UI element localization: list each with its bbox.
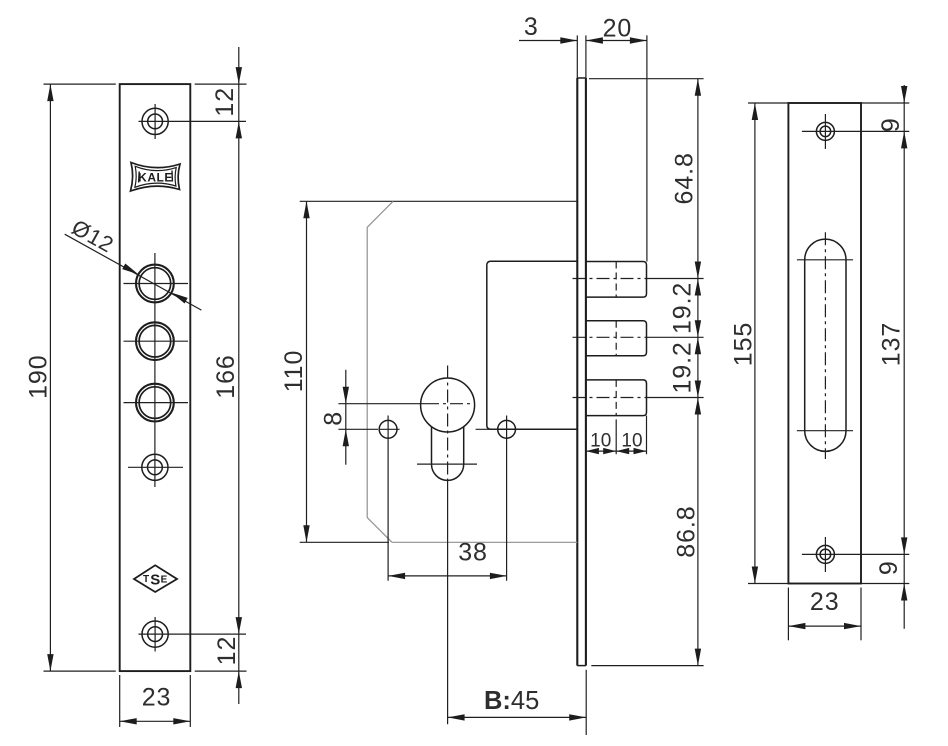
bolt hole 1 horizontal centerline (124, 283, 189, 285)
svg-text:12: 12 (211, 87, 239, 117)
dimension 155 (748, 102, 788, 104)
dimension 3 (519, 40, 577, 42)
slot (stadium) (805, 239, 846, 451)
bottom screw hole crosshair (154, 617, 156, 652)
right screw post circle (498, 420, 516, 438)
dimension 23 (right view) (787, 588, 789, 641)
dimension 20 (586, 40, 647, 42)
cylinder horizontal centerline (338, 403, 426, 405)
svg-text:110: 110 (280, 350, 308, 393)
svg-text:137: 137 (877, 322, 905, 366)
extension lines top/bottom left (44, 83, 116, 85)
bolt hole 2 horizontal centerline (124, 340, 189, 342)
body top-left chamfer (367, 201, 393, 227)
left plate outline (120, 84, 191, 671)
bolt hole 2 (136, 322, 174, 360)
bottom screw hole (142, 621, 168, 647)
dimension 12 / 166 / 12 line (238, 47, 240, 704)
bolt holes vertical centerline (154, 253, 156, 487)
dimension chain 64.8 / 19.2 / 19.2 / 86.8 (589, 78, 704, 80)
Ø12 leader line (65, 234, 202, 310)
svg-text:190: 190 (25, 354, 53, 398)
dimension B:45 (448, 716, 587, 718)
svg-text:19.2: 19.2 (669, 282, 697, 334)
body inner notch outline (487, 261, 578, 429)
KALE logo (131, 163, 181, 192)
top screw hole crosshair (154, 104, 156, 139)
svg-text:86.8: 86.8 (673, 505, 701, 557)
dimension 190 line (49, 84, 51, 671)
left screw post circle (379, 420, 397, 438)
body bottom-left chamfer (367, 518, 392, 543)
svg-text:S: S (150, 572, 160, 589)
body top edge + 110 extension (300, 200, 578, 202)
svg-text:E: E (161, 575, 168, 586)
svg-text:23: 23 (810, 588, 840, 616)
keyhole bottom tangent line (417, 463, 477, 465)
dimension 110 (306, 201, 308, 542)
svg-text:3: 3 (524, 13, 539, 41)
small hole 4 (142, 454, 168, 480)
cylinder centerline extension to B:45 (447, 481, 449, 724)
svg-text:10: 10 (590, 430, 611, 451)
svg-text:B:45: B:45 (484, 687, 539, 715)
body left edge (366, 227, 368, 517)
svg-text:19.2: 19.2 (669, 341, 697, 393)
bolt pocket 2 (586, 321, 647, 356)
bolt hole 1 (136, 265, 174, 303)
svg-text:38: 38 (458, 539, 488, 567)
TSE logo (134, 565, 177, 592)
bolt pocket 3 (586, 380, 647, 416)
keyhole slot (432, 427, 464, 481)
8 dim bottom extension (338, 428, 378, 430)
dimension 8 (345, 370, 347, 465)
svg-text:8: 8 (319, 411, 347, 426)
svg-text:155: 155 (730, 322, 758, 366)
svg-text:10: 10 (621, 430, 642, 451)
top screw hole (142, 108, 168, 134)
right screw post crosshair (476, 428, 498, 430)
bottom screw hole (right view) (816, 545, 834, 563)
svg-text:KALE: KALE (138, 171, 173, 185)
Ø12 leader arrow lower (171, 293, 188, 304)
svg-text:64.8: 64.8 (671, 152, 699, 204)
svg-text:20: 20 (603, 15, 633, 43)
faceplate edge strip (576, 78, 578, 666)
bolt hole 3 horizontal centerline (124, 402, 189, 404)
svg-text:12: 12 (213, 636, 241, 666)
small hole 4 horizontal centerline (128, 466, 183, 468)
cylinder vertical centerline dash-dot (447, 366, 449, 482)
svg-text:T: T (143, 574, 149, 585)
svg-text:166: 166 (212, 354, 240, 398)
strike plate outline (788, 103, 861, 584)
top screw hole (right view) (816, 122, 834, 140)
extension lines above faceplate (576, 35, 578, 78)
Ø12 leader arrow upper (122, 264, 138, 275)
dimension 9 / 137 / 9 (861, 102, 909, 104)
body bottom edge gray (392, 541, 577, 543)
slot centerline (824, 232, 826, 459)
dimension 38 (388, 575, 507, 577)
dimension 10 10 (615, 419, 617, 454)
slot tangent marks (797, 259, 853, 261)
bolt pocket 1 (586, 262, 647, 298)
dimension 23 (left view) (119, 675, 121, 727)
cylinder hole circle (421, 378, 475, 432)
left screw post crosshair (379, 428, 400, 430)
svg-text:23: 23 (142, 684, 172, 712)
svg-text:9: 9 (877, 117, 905, 132)
svg-text:9: 9 (875, 560, 903, 575)
bolt hole 3 (136, 384, 174, 422)
110 bottom extension black (300, 541, 389, 543)
